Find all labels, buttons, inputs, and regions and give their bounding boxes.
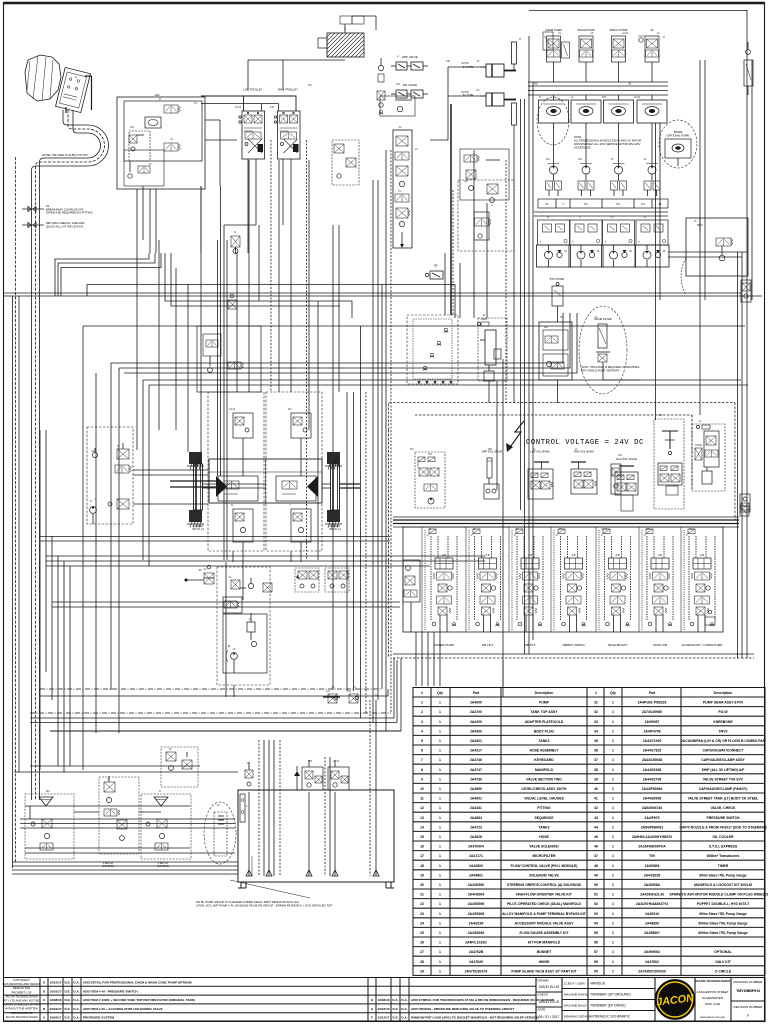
svg-text:1: 1 bbox=[439, 931, 441, 935]
svg-text:1: 1 bbox=[439, 893, 441, 897]
svg-text:PTO PUMP: PTO PUMP bbox=[550, 277, 565, 281]
svg-text:FITTING: FITTING bbox=[537, 806, 551, 810]
drive motor assembly B bbox=[266, 392, 322, 551]
svg-text:2A458807: 2A458807 bbox=[644, 931, 660, 935]
svg-text:M: M bbox=[597, 250, 599, 253]
svg-text:AS DETAILED: AS DETAILED bbox=[574, 146, 591, 150]
svg-text:59: 59 bbox=[594, 969, 598, 973]
svg-text:SOLENOID VALVE: SOLENOID VALVE bbox=[529, 873, 559, 877]
svg-text:MA: MA bbox=[46, 789, 50, 793]
svg-text:BODY PLUG: BODY PLUG bbox=[534, 729, 554, 733]
PTO pump component bbox=[552, 283, 563, 317]
bank module sublabels bbox=[442, 554, 704, 557]
wire below bank runs bbox=[30, 689, 401, 731]
wire cylinders feed bbox=[430, 62, 486, 140]
sol cluster pilot supply bbox=[415, 452, 445, 508]
svg-text:1: 1 bbox=[439, 777, 441, 781]
svg-text:DRAWN: DRAWN bbox=[538, 979, 549, 983]
anchor block bbox=[187, 510, 204, 528]
svg-text:A: A bbox=[491, 203, 493, 207]
svg-text:1: 1 bbox=[439, 960, 441, 964]
anchor block bbox=[325, 452, 342, 470]
check pair 4 bbox=[644, 181, 660, 196]
svg-text:1: 1 bbox=[612, 845, 614, 849]
small pump 4 bbox=[646, 140, 658, 181]
svg-text:D.A.: D.A. bbox=[401, 998, 407, 1002]
svg-text:(5.5 GPM): (5.5 GPM) bbox=[102, 865, 114, 868]
svg-text:PILOT-OPERATED CHECK (DUAL) MA: PILOT-OPERATED CHECK (DUAL) MANIFOLD bbox=[507, 902, 582, 906]
svg-text:KEYBOARD: KEYBOARD bbox=[534, 758, 554, 762]
svg-text:2A4723: 2A4723 bbox=[470, 825, 482, 829]
svg-text:TANK2: TANK2 bbox=[538, 739, 549, 743]
svg-text:2A47802: 2A47802 bbox=[645, 960, 659, 964]
svg-text:M: M bbox=[228, 644, 230, 648]
svg-text:SCRN JIB: SCRN JIB bbox=[653, 643, 667, 647]
manifold section 2 bbox=[570, 220, 602, 245]
svg-text:1: 1 bbox=[439, 941, 441, 945]
svg-text:2A7/H537/200039: 2A7/H537/200039 bbox=[638, 969, 666, 973]
wire center verticals bbox=[137, 140, 347, 691]
svg-text:2A4762B: 2A4762B bbox=[469, 950, 484, 954]
svg-text:B: B bbox=[159, 97, 161, 101]
svg-text:M8: M8 bbox=[446, 59, 450, 63]
svg-text:36: 36 bbox=[594, 749, 598, 753]
box with circle bbox=[380, 96, 415, 116]
sol cluster HCA bbox=[615, 466, 638, 511]
svg-text:1: 1 bbox=[439, 749, 441, 753]
note drain text bbox=[581, 366, 640, 372]
svg-text:PROPOSED SYSTEM: PROPOSED SYSTEM bbox=[83, 1016, 115, 1020]
svg-text:D.E.: D.E. bbox=[392, 1016, 398, 1020]
bank module 1 bbox=[425, 529, 457, 632]
svg-text:1: 1 bbox=[612, 912, 614, 916]
svg-text:1: 1 bbox=[439, 902, 441, 906]
svg-text:VISUAL LEVEL GAUGES: VISUAL LEVEL GAUGES bbox=[524, 797, 565, 801]
svg-text:19: 19 bbox=[420, 873, 424, 877]
svg-text:27: 27 bbox=[420, 950, 424, 954]
svg-text:SPARE: SPARE bbox=[674, 130, 683, 134]
bank bottom line bbox=[393, 653, 754, 655]
cylinder 2 bbox=[480, 93, 516, 106]
svg-text:1: 1 bbox=[612, 816, 614, 820]
svg-text:Qty: Qty bbox=[610, 691, 616, 695]
svg-text:1: 1 bbox=[612, 806, 614, 810]
svg-text:7: 7 bbox=[421, 758, 423, 762]
small valve below bank A bbox=[326, 691, 338, 703]
svg-text:D.A.: D.A. bbox=[73, 989, 79, 993]
svg-text:46: 46 bbox=[594, 845, 598, 849]
sol cluster RHS bbox=[571, 462, 597, 494]
svg-text:HIGH-FLOW DIVERTER VALVE KIT: HIGH-FLOW DIVERTER VALVE KIT bbox=[516, 893, 573, 897]
svg-text:P1: P1 bbox=[559, 527, 563, 531]
svg-text:ALLOY MANIFOLD & PUMP TERMINAL: ALLOY MANIFOLD & PUMP TERMINAL BYPASS KI… bbox=[502, 912, 587, 916]
svg-text:MB: MB bbox=[308, 759, 312, 763]
svg-text:T09: T09 bbox=[649, 854, 655, 858]
svg-text:LHS TROLLEY: LHS TROLLEY bbox=[243, 88, 263, 92]
power pack dashed box bbox=[87, 427, 133, 524]
svg-text:20/04/17: 20/04/17 bbox=[49, 1007, 61, 1011]
svg-text:20: 20 bbox=[420, 883, 424, 887]
power pack filter bbox=[117, 443, 129, 459]
svg-text:ADD ITEM # 33 + ACCUMULATOR UN: ADD ITEM # 33 + ACCUMULATOR UNLOADING VA… bbox=[83, 1007, 163, 1011]
cylinder 1 bbox=[480, 64, 516, 77]
svg-text:26: 26 bbox=[420, 941, 424, 945]
svg-text:2A44801: 2A44801 bbox=[469, 873, 483, 877]
pump assembly 1 bbox=[537, 245, 571, 267]
label cylinder left bbox=[192, 525, 204, 531]
svg-text:2A4/297H/A82647Y3: 2A4/297H/A82647Y3 bbox=[636, 902, 668, 906]
svg-text:1: 1 bbox=[612, 893, 614, 897]
svg-text:A B: A B bbox=[442, 554, 446, 557]
svg-text:1: 1 bbox=[439, 864, 441, 868]
svg-text:M8: M8 bbox=[396, 82, 400, 86]
valve 10C bbox=[164, 143, 181, 151]
svg-text:ADD DETAIL FOR PROFESSIONAL CH: ADD DETAIL FOR PROFESSIONAL CHEM & WASH … bbox=[83, 981, 192, 985]
steering unit bbox=[478, 318, 508, 381]
motor box 3 bbox=[604, 95, 634, 140]
svg-text:10/10/17: 10/10/17 bbox=[49, 989, 61, 993]
svg-text:ALL PROFESSIONAL MODELS 230V +: ALL PROFESSIONAL MODELS 230V + 400V AC M… bbox=[574, 139, 641, 143]
svg-text:TMV8/BBP/H4: TMV8/BBP/H4 bbox=[736, 989, 760, 993]
svg-text:D.E.: D.E. bbox=[64, 1016, 70, 1020]
svg-text:VALVE STREET TVA SVC: VALVE STREET TVA SVC bbox=[703, 777, 744, 781]
svg-text:ADAPTER PLATE/COLD: ADAPTER PLATE/COLD bbox=[525, 720, 564, 724]
svg-text:4: 4 bbox=[421, 729, 423, 733]
motor box 2 bbox=[571, 95, 601, 140]
svg-text:2A43: 2A43 bbox=[622, 31, 629, 35]
svg-text:2A4300: 2A4300 bbox=[470, 729, 482, 733]
wire long y326 bbox=[83, 325, 745, 327]
svg-text:B: B bbox=[117, 444, 119, 448]
svg-text:VALVE, CHECK: VALVE, CHECK bbox=[711, 806, 736, 810]
svg-text:2A4601: 2A4601 bbox=[470, 797, 482, 801]
svg-text:18: 18 bbox=[420, 864, 424, 868]
component reference labels bbox=[46, 27, 746, 807]
svg-text:P2: P2 bbox=[584, 202, 588, 206]
svg-text:33: 33 bbox=[594, 720, 598, 724]
wire bottom center leads bbox=[186, 578, 251, 697]
svg-text:1: 1 bbox=[612, 758, 614, 762]
wire bottom assemblies extra links bbox=[25, 806, 235, 853]
valve block 10A box bbox=[117, 93, 205, 189]
trolley feed arc bbox=[681, 258, 686, 295]
wire left edge verticals bbox=[13, 157, 20, 868]
svg-text:35: 35 bbox=[594, 739, 598, 743]
valve small 9 bbox=[231, 230, 240, 254]
svg-text:RHS TROLLEY: RHS TROLLEY bbox=[278, 88, 298, 92]
svg-text:2A4/P675: 2A4/P675 bbox=[644, 816, 659, 820]
svg-text:2A4317: 2A4317 bbox=[470, 749, 482, 753]
svg-text:13: 13 bbox=[420, 816, 424, 820]
svg-text:2A429/AG2L43: 2A429/AG2L43 bbox=[640, 893, 664, 897]
svg-text:PRESSURE SWITCH: PRESSURE SWITCH bbox=[707, 816, 741, 820]
svg-text:600w Slave ITB, Pump Gauge: 600w Slave ITB, Pump Gauge bbox=[699, 873, 746, 877]
box 460-509 bbox=[460, 149, 509, 200]
svg-text:1: 1 bbox=[421, 701, 423, 705]
wire thick stub bbox=[323, 696, 340, 698]
svg-text:B: B bbox=[159, 789, 161, 793]
svg-text:2A43: 2A43 bbox=[235, 105, 242, 109]
svg-text:CAP/GAUGE/CLAMP (PAH/2Y): CAP/GAUGE/CLAMP (PAH/2Y) bbox=[699, 787, 748, 791]
note leader line bbox=[230, 880, 310, 898]
svg-text:MA: MA bbox=[434, 263, 438, 267]
svg-text:HOSE: HOSE bbox=[539, 835, 549, 839]
note pumps text bbox=[574, 135, 641, 150]
svg-text:47: 47 bbox=[594, 854, 598, 858]
svg-text:A: A bbox=[354, 685, 356, 689]
svg-text:1: 1 bbox=[612, 797, 614, 801]
svg-text:40: 40 bbox=[594, 787, 598, 791]
svg-text:2A44/02308: 2A44/02308 bbox=[643, 768, 662, 772]
svg-text:CONTROL VOLTAGE = 24V DC: CONTROL VOLTAGE = 24V DC bbox=[526, 439, 644, 447]
small pump 1 bbox=[548, 140, 560, 181]
component 543 top bbox=[543, 32, 553, 50]
svg-text:2A4321: 2A4321 bbox=[470, 739, 482, 743]
box right of trolleys bbox=[332, 140, 359, 185]
pump column 4 upper valve bbox=[638, 36, 665, 82]
svg-text:HOSE ASSEMBLY: HOSE ASSEMBLY bbox=[530, 749, 560, 753]
breakaway coupling 2 bbox=[22, 223, 44, 228]
brake cylinder right bbox=[331, 458, 340, 510]
svg-text:2A4P/301-P/80229: 2A4P/301-P/80229 bbox=[638, 701, 667, 705]
svg-text:1: 1 bbox=[439, 825, 441, 829]
svg-text:1: 1 bbox=[612, 902, 614, 906]
svg-text:3: 3 bbox=[421, 720, 423, 724]
svg-text:P1: P1 bbox=[194, 101, 198, 105]
wire bank stub verticals bbox=[416, 632, 503, 686]
svg-text:1: 1 bbox=[612, 787, 614, 791]
svg-text:23: 23 bbox=[420, 912, 424, 916]
bank module 4 bbox=[554, 529, 587, 632]
JACON logo bbox=[655, 980, 695, 1020]
svg-text:2A4700: 2A4700 bbox=[470, 710, 482, 714]
svg-text:MACHINE BUILD: MACHINE BUILD bbox=[564, 1004, 587, 1008]
svg-text:CLIENT / USER: CLIENT / USER bbox=[564, 982, 585, 986]
accumulator valve box bbox=[223, 597, 242, 613]
svg-text:1: 1 bbox=[439, 816, 441, 820]
svg-text:P1: P1 bbox=[558, 31, 562, 35]
svg-text:21: 21 bbox=[420, 893, 424, 897]
svg-text:2A4/P4708: 2A4/P4708 bbox=[644, 729, 661, 733]
bank module 3 bbox=[512, 529, 543, 632]
manifold section 1 bbox=[538, 220, 570, 245]
svg-text:28: 28 bbox=[420, 960, 424, 964]
svg-text:D.E.: D.E. bbox=[64, 1007, 70, 1011]
svg-text:WINDOW PBT LOAD (ARC) TO BUCKE: WINDOW PBT LOAD (ARC) TO BUCKET MANIFOLD… bbox=[411, 1016, 539, 1020]
svg-text:1: 1 bbox=[612, 873, 614, 877]
svg-text:(55 CU in): (55 CU in) bbox=[192, 528, 204, 531]
title block bbox=[536, 978, 765, 1022]
bank module 7 bbox=[684, 529, 715, 632]
svg-text:M8: M8 bbox=[270, 105, 274, 109]
svg-text:ADD ITEM # 49 - PRESSURE SWITC: ADD ITEM # 49 - PRESSURE SWITCH bbox=[83, 989, 138, 993]
svg-text:2A44/02708: 2A44/02708 bbox=[643, 777, 662, 781]
svg-text:DPF VALVE: DPF VALVE bbox=[402, 55, 418, 59]
svg-text:1: 1 bbox=[612, 921, 614, 925]
cylinder column top right bbox=[744, 42, 753, 95]
manifold section 4 bbox=[636, 220, 668, 245]
dashed box upper-center bbox=[458, 180, 514, 251]
drain filter assembly bbox=[594, 317, 612, 362]
svg-text:ACCESSORY / CHEM PUMP: ACCESSORY / CHEM PUMP bbox=[682, 643, 723, 647]
svg-text:15: 15 bbox=[420, 835, 424, 839]
svg-text:48: 48 bbox=[594, 864, 598, 868]
svg-text:10: 10 bbox=[420, 787, 424, 791]
svg-text:VARIOUS: VARIOUS bbox=[590, 982, 606, 986]
svg-text:2A44/17815: 2A44/17815 bbox=[643, 749, 662, 753]
bank module 2 bbox=[469, 529, 501, 632]
bank inlet section bbox=[403, 560, 420, 632]
svg-text:M8: M8 bbox=[618, 453, 622, 457]
svg-text:5x P/N: 5x P/N bbox=[461, 91, 468, 94]
suction ellipse bbox=[204, 802, 236, 864]
svg-text:D.E.: D.E. bbox=[64, 998, 70, 1002]
svg-text:1: 1 bbox=[439, 758, 441, 762]
svg-text:1: 1 bbox=[439, 854, 441, 858]
svg-text:13/08/18: 13/08/18 bbox=[377, 998, 389, 1002]
svg-text:TANK3: TANK3 bbox=[538, 825, 549, 829]
svg-text:5x P/N: 5x P/N bbox=[461, 62, 468, 65]
sub box 10D bbox=[129, 131, 150, 161]
accumulator bottom bbox=[512, 103, 517, 131]
svg-text:600kw Slave ITB, Pump Gauge: 600kw Slave ITB, Pump Gauge bbox=[698, 921, 747, 925]
svg-text:VALVE SOLENOID: VALVE SOLENOID bbox=[529, 845, 559, 849]
svg-text:OPTIONAL: OPTIONAL bbox=[714, 950, 732, 954]
svg-text:P: P bbox=[90, 499, 92, 503]
wire top right bus bbox=[528, 82, 668, 95]
svg-text:DATE: DATE bbox=[538, 1008, 546, 1012]
svg-text:6: 6 bbox=[421, 749, 423, 753]
return filter group A bbox=[161, 747, 198, 787]
svg-text:52: 52 bbox=[594, 902, 598, 906]
svg-text:1: 1 bbox=[439, 950, 441, 954]
svg-text:A B: A B bbox=[616, 554, 620, 557]
svg-text:1: 1 bbox=[612, 950, 614, 954]
svg-text:(55 CU in): (55 CU in) bbox=[329, 528, 341, 531]
svg-text:MANIFOLD & LOCKOUT KIT W/VLM: MANIFOLD & LOCKOUT KIT W/VLM bbox=[694, 883, 752, 887]
svg-text:24: 24 bbox=[420, 921, 424, 925]
svg-text:1: 1 bbox=[612, 960, 614, 964]
svg-text:2A4000: 2A4000 bbox=[470, 701, 482, 705]
svg-text:43: 43 bbox=[594, 816, 598, 820]
svg-text:MB: MB bbox=[646, 527, 650, 531]
svg-text:HYDRAULIC SCHEMATIC: HYDRAULIC SCHEMATIC bbox=[590, 1015, 631, 1019]
small pump 3 bbox=[613, 140, 625, 181]
svg-text:2A909064: 2A909064 bbox=[644, 950, 660, 954]
svg-text:1: 1 bbox=[439, 787, 441, 791]
svg-text:2A74/100060: 2A74/100060 bbox=[642, 710, 662, 714]
tank level gauge bbox=[240, 794, 248, 822]
svg-text:1: 1 bbox=[439, 720, 441, 724]
svg-text:JACON TECHNOLOGIES: JACON TECHNOLOGIES bbox=[695, 979, 730, 983]
power pack valve bbox=[115, 465, 132, 473]
svg-text:O CIRCLE: O CIRCLE bbox=[715, 969, 732, 973]
svg-text:D.A.: D.A. bbox=[401, 1016, 407, 1020]
svg-text:51: 51 bbox=[594, 893, 598, 897]
component mid 8 bbox=[228, 294, 237, 309]
svg-text:JIB LIFT: JIB LIFT bbox=[482, 643, 494, 647]
wire horizontal y301 bbox=[165, 253, 352, 318]
svg-text:JIB TILT: JIB TILT bbox=[524, 643, 536, 647]
svg-text:B: B bbox=[519, 37, 521, 41]
svg-text:5: 5 bbox=[421, 739, 423, 743]
svg-text:ADD SYMBOL FOR TRANSDUCERS AT: ADD SYMBOL FOR TRANSDUCERS AT MA & MB ON… bbox=[411, 998, 555, 1002]
svg-text:HOSE, 5M (SEE M SUB) LTD P/N: HOSE, 5M (SEE M SUB) LTD P/N bbox=[42, 153, 88, 157]
svg-text:1: 1 bbox=[439, 797, 441, 801]
svg-text:DAVID ELLIS: DAVID ELLIS bbox=[539, 985, 560, 989]
svg-text:1: 1 bbox=[612, 720, 614, 724]
svg-text:MA: MA bbox=[546, 157, 550, 161]
sol cluster pressure filter bbox=[692, 424, 725, 491]
lightning arrow bbox=[506, 421, 524, 452]
svg-text:M8: M8 bbox=[658, 413, 662, 417]
svg-text:STEERING ORIFICE-CONTROL (A) S: STEERING ORIFICE-CONTROL (A) SOLENOID bbox=[507, 883, 582, 887]
motor box 4 bbox=[637, 95, 667, 140]
wire verticals center-right bbox=[445, 36, 533, 654]
svg-text:1: 1 bbox=[439, 701, 441, 705]
tank dashed pipes bbox=[259, 700, 370, 876]
svg-text:S.T.O.L EXPRESS: S.T.O.L EXPRESS bbox=[709, 845, 738, 849]
svg-text:2: 2 bbox=[421, 710, 423, 714]
wire power pack leads bbox=[133, 470, 208, 504]
svg-text:22: 22 bbox=[420, 902, 424, 906]
svg-text:LEVEL/CHECK ASSY 100TH: LEVEL/CHECK ASSY 100TH bbox=[521, 787, 567, 791]
svg-text:38: 38 bbox=[594, 768, 598, 772]
svg-text:2A43: 2A43 bbox=[601, 527, 608, 531]
svg-text:M8: M8 bbox=[130, 125, 134, 129]
wire drive link horizontal bbox=[170, 481, 360, 488]
svg-text:P1: P1 bbox=[398, 189, 402, 193]
svg-text:E: E bbox=[43, 981, 45, 985]
svg-text:M8: M8 bbox=[464, 179, 468, 183]
svg-text:2A470904: 2A470904 bbox=[468, 845, 484, 849]
pump column 2 upper valve bbox=[579, 36, 593, 82]
svg-text:58: 58 bbox=[594, 960, 598, 964]
valve block lower box bbox=[124, 150, 164, 186]
valve bank top bus bbox=[393, 517, 739, 527]
svg-text:www.jacon.com.au: www.jacon.com.au bbox=[700, 1015, 725, 1019]
sol cluster LHS bbox=[528, 462, 553, 499]
spare pump box bbox=[665, 130, 691, 166]
svg-text:A B: A B bbox=[486, 554, 490, 557]
svg-text:M: M bbox=[630, 250, 632, 253]
check pair 1 bbox=[546, 181, 562, 196]
check pair 3 bbox=[611, 181, 627, 196]
hatched manifold bbox=[318, 16, 376, 57]
svg-text:49: 49 bbox=[594, 873, 598, 877]
valve left small bbox=[377, 91, 385, 114]
svg-text:P4: P4 bbox=[641, 202, 645, 206]
junction dot bbox=[185, 579, 187, 581]
svg-text:VALVE STREET TANK (LT) BODY CK: VALVE STREET TANK (LT) BODY CK STEEL bbox=[688, 797, 759, 801]
svg-text:1: 1 bbox=[612, 883, 614, 887]
drive motor assembly A bbox=[208, 392, 264, 551]
control zone dashed border bbox=[389, 403, 736, 659]
svg-text:2A42803: 2A42803 bbox=[469, 864, 483, 868]
svg-text:2A4/63035: 2A4/63035 bbox=[468, 931, 485, 935]
svg-text:2A44/30008: 2A44/30008 bbox=[643, 797, 662, 801]
svg-text:CAP/GAUGE/CLAMP ASSY: CAP/GAUGE/CLAMP ASSY bbox=[701, 758, 745, 762]
strip manifold labels bbox=[538, 199, 668, 208]
revision table bbox=[4, 978, 537, 1022]
svg-text:1: 1 bbox=[612, 854, 614, 858]
svg-text:P1: P1 bbox=[610, 215, 614, 219]
svg-text:50: 50 bbox=[594, 883, 598, 887]
svg-text:D.A.: D.A. bbox=[73, 1007, 79, 1011]
small comps above tank left bbox=[245, 762, 253, 786]
svg-text:1: 1 bbox=[612, 777, 614, 781]
remote control housing bbox=[25, 55, 61, 101]
